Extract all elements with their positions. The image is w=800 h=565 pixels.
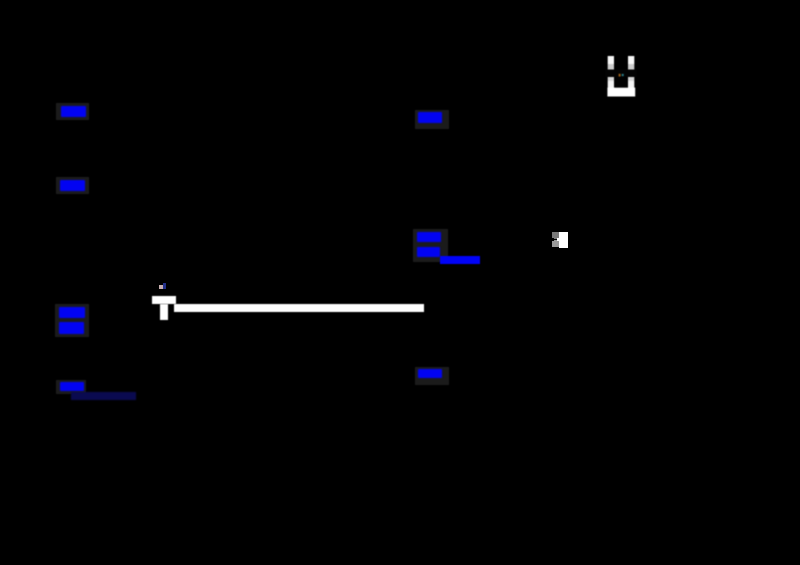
- small page icon (gray/white): [551, 231, 569, 249]
- link word R1: [418, 112, 442, 123]
- bottom white block: [607, 88, 635, 97]
- link halo L2: [56, 177, 89, 194]
- link word L3b: [59, 322, 84, 334]
- link word L2: [60, 180, 85, 191]
- link word R2b: [417, 247, 440, 257]
- link word R3: [418, 369, 442, 378]
- link halo L1: [56, 103, 89, 120]
- orange dot: [619, 74, 621, 77]
- link bar R2c: [440, 256, 480, 264]
- formula white glyph: top block: [152, 296, 176, 304]
- link word L1: [61, 106, 86, 117]
- formula white glyph: stem: [160, 304, 168, 320]
- link halo R3: [415, 367, 449, 385]
- link word L3a: [59, 307, 85, 318]
- link halo R2: [413, 229, 448, 262]
- center dark blob: [615, 53, 628, 88]
- link halo L3: [55, 304, 89, 337]
- tiny colored mark above formula: [158, 283, 168, 291]
- link word R2a: [417, 232, 441, 242]
- link halo R1: [415, 110, 449, 129]
- formula white glyph: long bar: [174, 304, 424, 312]
- link word L4: [60, 382, 84, 391]
- right white bar: [628, 56, 634, 64]
- left white bar: [608, 56, 614, 64]
- visited link bar L4b: [71, 392, 136, 400]
- teal dot: [622, 74, 624, 76]
- link halo L4: [56, 380, 86, 394]
- top navigation icon: [605, 53, 637, 99]
